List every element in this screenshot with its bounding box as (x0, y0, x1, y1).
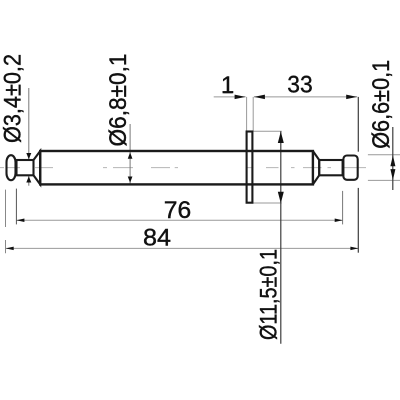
svg-text:33: 33 (287, 72, 312, 99)
svg-text:76: 76 (164, 197, 191, 224)
svg-text:84: 84 (143, 225, 171, 252)
svg-text:Ø11,5±0,1: Ø11,5±0,1 (256, 249, 283, 340)
svg-text:1: 1 (221, 72, 234, 99)
svg-text:Ø6,8±0,1: Ø6,8±0,1 (105, 54, 132, 147)
svg-text:Ø3,4±0,2: Ø3,4±0,2 (0, 54, 26, 143)
svg-text:Ø6,6±0,1: Ø6,6±0,1 (368, 60, 395, 149)
